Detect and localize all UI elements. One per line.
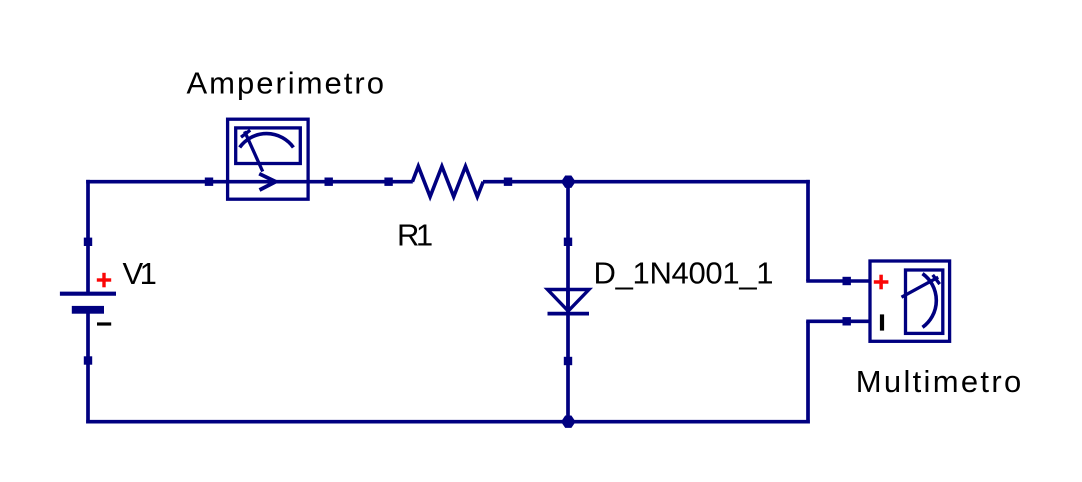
ammeter dial box xyxy=(236,128,301,164)
wire: right lower vertical xyxy=(806,321,810,423)
ammeter needle xyxy=(245,131,263,171)
pin on multimeter plus lead xyxy=(843,277,851,285)
wire: diode anode lead xyxy=(566,182,570,313)
pin on diode cathode lead xyxy=(564,357,572,365)
multimeter dial box xyxy=(906,270,943,333)
wire: top right horizontal xyxy=(569,180,810,184)
wire: diode cathode lead xyxy=(566,290,570,422)
wire: bottom right horizontal xyxy=(569,420,810,424)
wire: multimeter minus lead xyxy=(806,319,869,323)
diode D_1N4001_1 triangle xyxy=(548,290,590,312)
pin right of ammeter xyxy=(325,178,333,186)
wire: multimeter plus lead xyxy=(806,279,869,283)
multimeter U2 outer box xyxy=(870,261,950,341)
pin on battery negative lead xyxy=(84,356,92,364)
junction: bottom node xyxy=(561,416,576,428)
multimeter plus marking xyxy=(874,275,889,290)
pin on multimeter minus lead xyxy=(843,317,851,325)
multimeter needle tick xyxy=(933,275,940,284)
wire: bottom left horizontal xyxy=(86,420,568,424)
svg-text:Multimetro: Multimetro xyxy=(856,364,1024,399)
battery V1 negative plate xyxy=(72,306,104,314)
wire: ammeter to resistor xyxy=(308,180,413,184)
wire: top-left horizontal segment xyxy=(86,180,227,184)
pin right of resistor xyxy=(504,178,512,186)
multimeter minus marking xyxy=(880,314,884,330)
svg-text:V1: V1 xyxy=(123,256,156,291)
wire: resistor to junction xyxy=(483,180,569,184)
svg-text:R1: R1 xyxy=(397,218,432,253)
multimeter dial arc xyxy=(923,274,937,328)
pin left of resistor xyxy=(384,178,392,186)
wire: left vertical (battery positive lead) xyxy=(86,180,90,292)
svg-text:D_1N4001_1: D_1N4001_1 xyxy=(594,256,774,291)
multimeter needle xyxy=(902,277,939,297)
pin left of ammeter xyxy=(205,178,213,186)
ammeter wire arrow xyxy=(259,174,276,190)
resistor R1 zigzag xyxy=(412,166,483,196)
junction: top node xyxy=(561,176,576,188)
ammeter needle tick xyxy=(241,130,250,137)
battery V1 positive plate xyxy=(60,292,116,296)
pin on battery positive lead xyxy=(84,238,92,246)
battery V1 plus marking xyxy=(97,273,111,288)
svg-text:Amperimetro: Amperimetro xyxy=(187,66,386,101)
pin on diode anode lead xyxy=(564,238,572,246)
battery V1 minus marking xyxy=(97,322,111,325)
ammeter dial arc xyxy=(240,134,294,148)
wire: battery negative lead down xyxy=(86,313,90,424)
ammeter U1 outer box xyxy=(228,119,309,199)
wire: right upper vertical xyxy=(806,180,810,281)
wire: through ammeter box xyxy=(226,180,310,184)
diode D_1N4001_1 cathode bar xyxy=(548,312,590,316)
